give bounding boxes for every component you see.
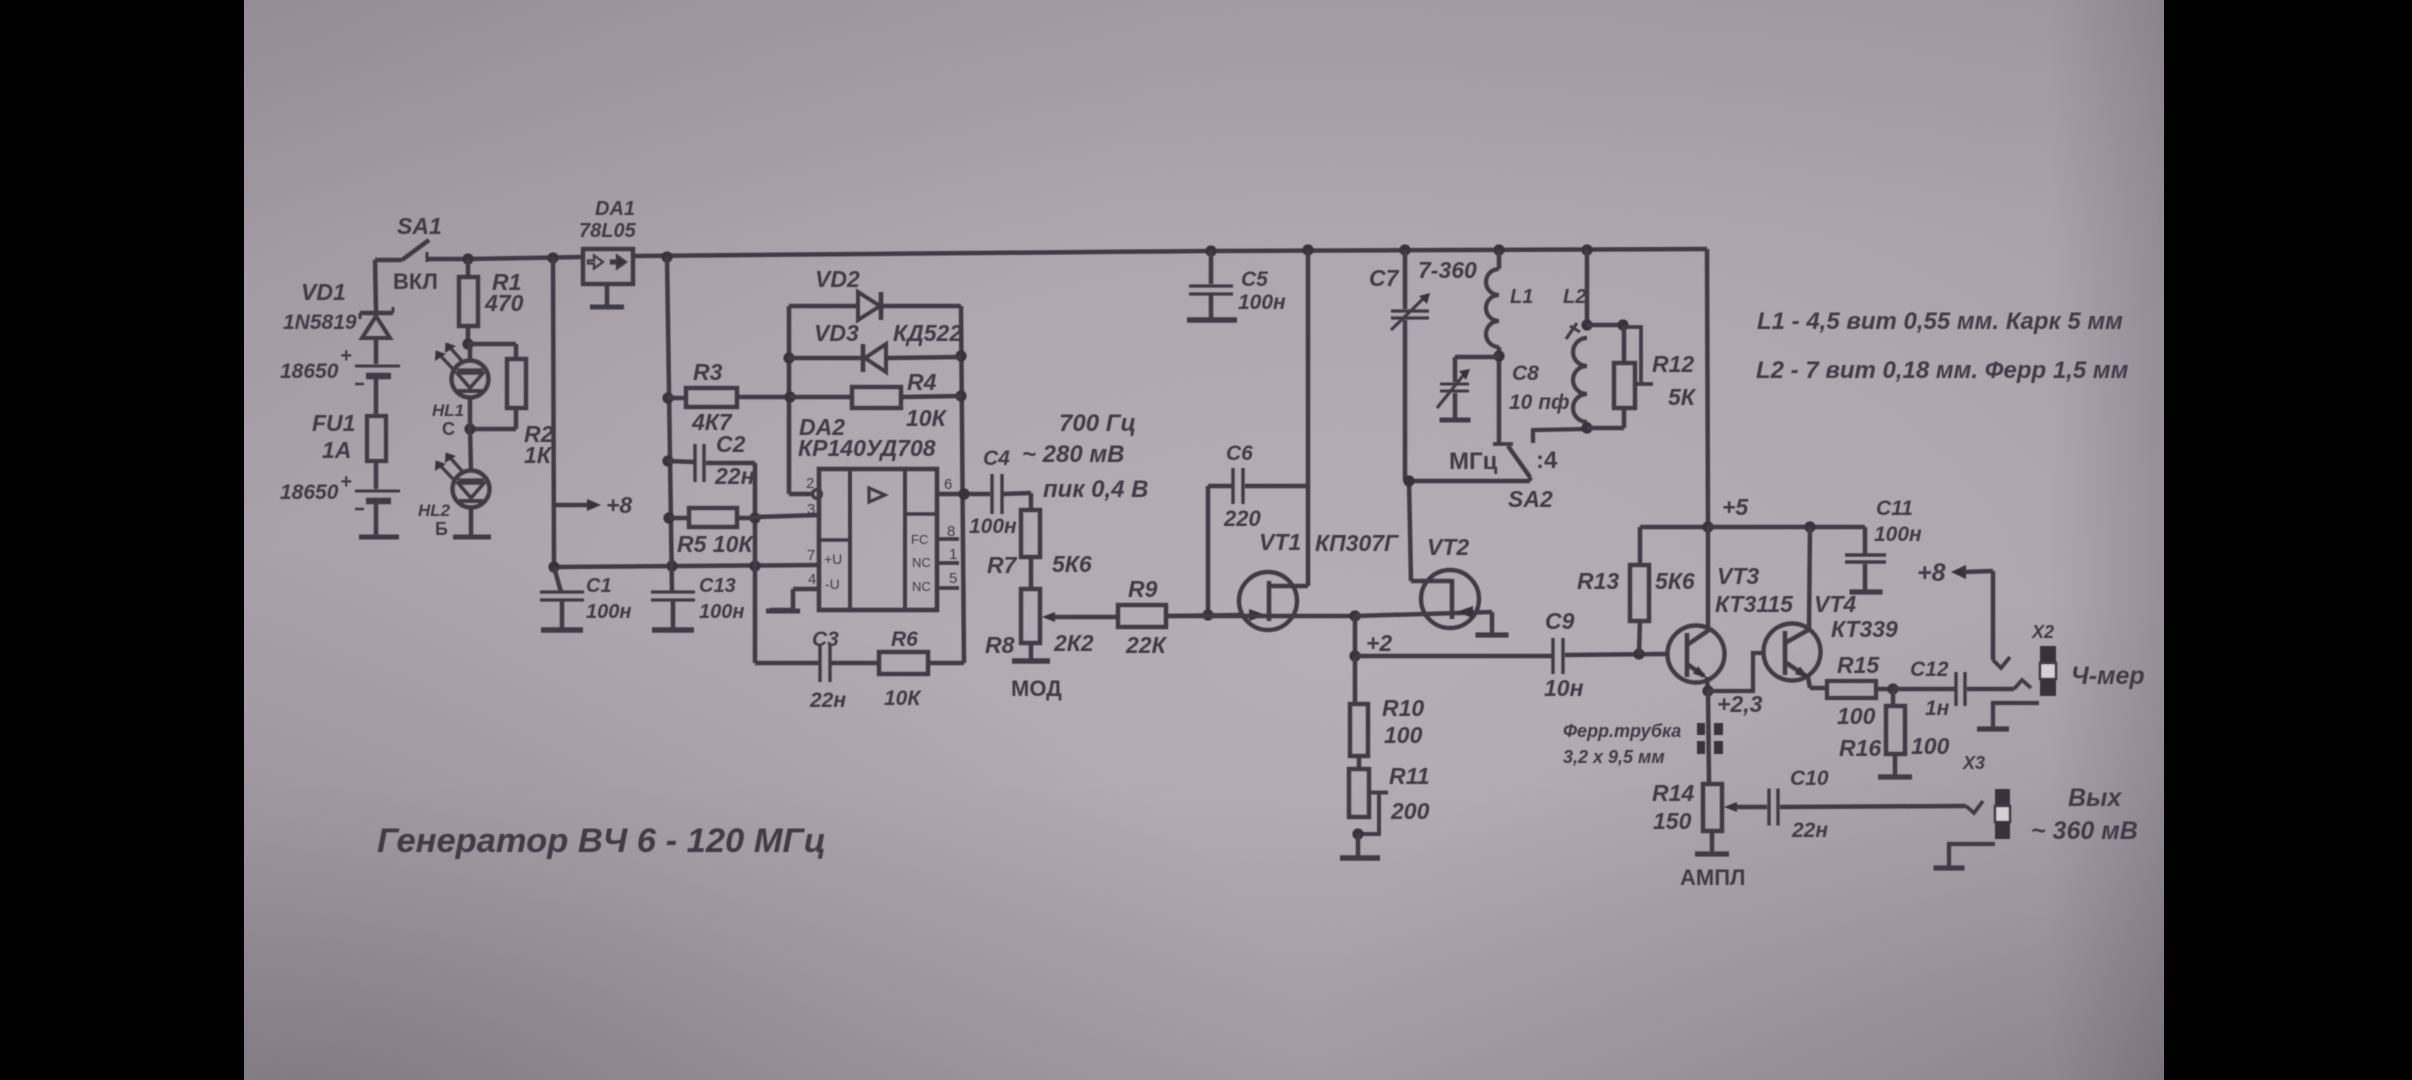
svg-text:6: 6 <box>944 476 952 493</box>
svg-text:2: 2 <box>806 475 814 492</box>
svg-text:R13: R13 <box>1577 568 1619 594</box>
svg-text:C2: C2 <box>716 431 746 457</box>
svg-text:FC: FC <box>911 532 928 547</box>
svg-text:VT4: VT4 <box>1814 591 1856 617</box>
svg-text:C11: C11 <box>1876 497 1913 520</box>
svg-text:+5: +5 <box>1722 494 1749 520</box>
svg-text:АМПЛ: АМПЛ <box>1680 865 1745 890</box>
svg-text:МОД: МОД <box>1011 676 1062 701</box>
svg-text:L1 - 4,5 вит 0,55 мм. Карк 5 м: L1 - 4,5 вит 0,55 мм. Карк 5 мм <box>1757 308 2123 335</box>
svg-text:100: 100 <box>1837 703 1876 729</box>
svg-text:10К: 10К <box>884 687 922 710</box>
svg-text:R6: R6 <box>891 628 918 651</box>
svg-text:C1: C1 <box>586 575 612 597</box>
svg-text:ВКЛ: ВКЛ <box>393 269 438 294</box>
svg-text:22К: 22К <box>1125 632 1168 658</box>
svg-text:R4: R4 <box>907 369 937 395</box>
svg-text:Генератор ВЧ 6 - 120 МГц: Генератор ВЧ 6 - 120 МГц <box>377 822 826 860</box>
svg-text::4: :4 <box>1536 447 1558 474</box>
svg-text:КП307Г: КП307Г <box>1315 530 1399 556</box>
svg-text:SA2: SA2 <box>1508 486 1553 512</box>
svg-text:X2: X2 <box>2031 622 2054 642</box>
svg-text:C13: C13 <box>699 575 736 597</box>
svg-text:100н: 100н <box>1874 523 1922 546</box>
svg-text:+2: +2 <box>1366 630 1392 656</box>
svg-text:22н: 22н <box>1791 819 1828 842</box>
svg-text:МГц: МГц <box>1449 448 1498 475</box>
svg-text:100н: 100н <box>1238 291 1286 314</box>
svg-text:R7: R7 <box>987 552 1018 578</box>
svg-text:NC: NC <box>912 555 931 570</box>
svg-text:10К: 10К <box>906 405 948 431</box>
svg-text:КД522: КД522 <box>893 320 962 346</box>
svg-text:HL1: HL1 <box>432 401 464 420</box>
svg-text:C9: C9 <box>1545 608 1575 634</box>
svg-text:100н: 100н <box>699 601 744 623</box>
svg-text:4: 4 <box>808 571 816 588</box>
svg-text:100н: 100н <box>969 515 1017 538</box>
svg-text:+: + <box>340 471 352 493</box>
svg-text:2К2: 2К2 <box>1053 630 1094 656</box>
svg-text:Ч-мер: Ч-мер <box>2071 662 2145 690</box>
svg-text:пик 0,4 В: пик 0,4 В <box>1043 476 1149 503</box>
svg-text:C3: C3 <box>812 628 839 651</box>
svg-text:C5: C5 <box>1241 268 1268 291</box>
svg-text:200: 200 <box>1390 798 1430 824</box>
svg-text:R14: R14 <box>1652 780 1694 806</box>
svg-text:FU1: FU1 <box>312 410 355 436</box>
svg-text:10 пф: 10 пф <box>1509 391 1570 414</box>
svg-text:C6: C6 <box>1226 442 1253 465</box>
svg-text:7: 7 <box>807 547 815 564</box>
svg-text:1N5819: 1N5819 <box>283 311 357 334</box>
svg-text:470: 470 <box>484 290 524 316</box>
svg-text:VD1: VD1 <box>301 279 346 305</box>
svg-text:VT1: VT1 <box>1259 529 1301 555</box>
svg-text:1: 1 <box>949 546 957 563</box>
svg-text:R12: R12 <box>1652 351 1694 377</box>
svg-text:DA1: DA1 <box>595 198 635 220</box>
svg-text:~ 280 мВ: ~ 280 мВ <box>1022 441 1124 468</box>
svg-text:150: 150 <box>1653 808 1692 834</box>
svg-text:22н: 22н <box>714 463 755 489</box>
svg-text:5: 5 <box>949 570 957 587</box>
svg-text:220: 220 <box>1223 506 1261 531</box>
svg-text:+: + <box>340 345 352 367</box>
svg-text:L1: L1 <box>1510 286 1533 308</box>
svg-text:R11: R11 <box>1389 763 1430 789</box>
svg-text:18650: 18650 <box>280 360 339 383</box>
svg-text:L2: L2 <box>1563 286 1586 308</box>
svg-text:5К: 5К <box>1668 384 1697 410</box>
svg-text:1н: 1н <box>1925 697 1950 720</box>
svg-text:18650: 18650 <box>280 481 339 504</box>
svg-text:+2,3: +2,3 <box>1717 691 1763 717</box>
svg-text:R10: R10 <box>1382 695 1424 721</box>
svg-text:R8: R8 <box>985 632 1015 658</box>
svg-text:C10: C10 <box>1790 767 1829 790</box>
svg-text:SA1: SA1 <box>397 213 442 239</box>
svg-text:100н: 100н <box>586 601 631 623</box>
svg-text:100: 100 <box>1911 733 1950 759</box>
svg-text:5К6: 5К6 <box>1052 551 1092 577</box>
svg-text:R9: R9 <box>1128 576 1158 602</box>
svg-text:L2 - 7 вит 0,18 мм. Ферр 1,5 м: L2 - 7 вит 0,18 мм. Ферр 1,5 мм <box>1756 357 2129 384</box>
svg-text:1A: 1A <box>322 437 351 463</box>
svg-text:~ 360 мВ: ~ 360 мВ <box>2031 817 2138 845</box>
svg-text:КР140УД708: КР140УД708 <box>798 435 936 461</box>
svg-text:22н: 22н <box>809 689 846 712</box>
svg-text:+U: +U <box>824 551 842 567</box>
svg-text:R15: R15 <box>1837 652 1880 678</box>
svg-text:Вых: Вых <box>2068 784 2122 812</box>
svg-text:КТ339: КТ339 <box>1831 616 1898 642</box>
svg-text:8: 8 <box>947 523 955 540</box>
svg-text:C: C <box>442 419 455 439</box>
svg-text:КТ3115: КТ3115 <box>1715 591 1794 617</box>
svg-text:VT2: VT2 <box>1427 534 1469 560</box>
svg-text:10н: 10н <box>1544 675 1584 701</box>
svg-text:VT3: VT3 <box>1717 563 1759 589</box>
svg-text:Б: Б <box>435 519 448 539</box>
svg-text:Ферр.трубка: Ферр.трубка <box>1563 721 1681 741</box>
svg-text:78L05: 78L05 <box>579 220 637 242</box>
svg-text:100: 100 <box>1384 722 1423 748</box>
svg-text:VD2: VD2 <box>815 266 860 292</box>
svg-text:1К: 1К <box>524 442 553 468</box>
svg-text:X3: X3 <box>1962 753 1985 773</box>
svg-text:5К6: 5К6 <box>1655 568 1695 594</box>
svg-text:7-360: 7-360 <box>1418 257 1477 283</box>
svg-text:HL2: HL2 <box>418 501 451 520</box>
svg-text:700 Гц: 700 Гц <box>1059 410 1136 437</box>
svg-text:C8: C8 <box>1512 362 1539 385</box>
svg-text:R3: R3 <box>693 359 723 385</box>
svg-text:C12: C12 <box>1910 658 1949 681</box>
svg-text:C7: C7 <box>1369 265 1400 291</box>
svg-text:+8: +8 <box>1917 559 1946 587</box>
svg-text:R5 10К: R5 10К <box>677 531 754 557</box>
svg-text:-U: -U <box>825 576 840 592</box>
svg-text:R16: R16 <box>1839 735 1881 761</box>
svg-text:+8: +8 <box>606 492 632 518</box>
svg-text:VD3: VD3 <box>814 320 859 346</box>
svg-text:NC: NC <box>912 579 931 594</box>
svg-text:3: 3 <box>807 501 815 518</box>
svg-text:C4: C4 <box>983 447 1010 470</box>
svg-text:3,2 х 9,5 мм: 3,2 х 9,5 мм <box>1563 747 1665 767</box>
